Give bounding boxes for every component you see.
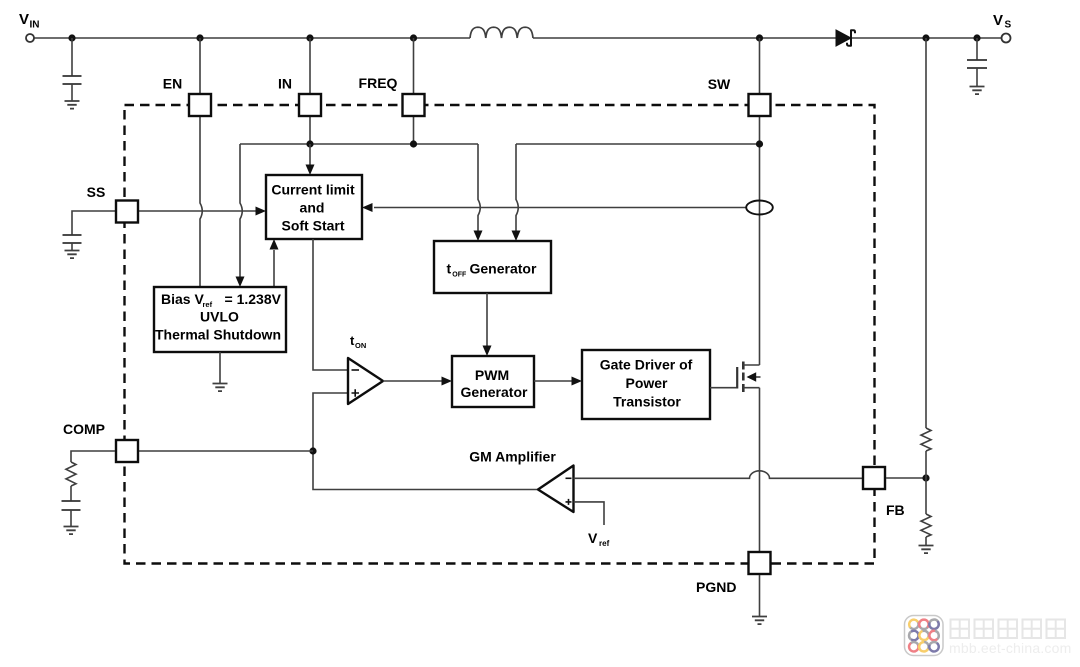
wire comparator plus to COMP node down to GM output [313,393,538,490]
arrow IN into current limit [309,144,311,167]
ground (output cap) [970,87,985,95]
wire GM minus input from FB (hop over source wire) [574,471,864,478]
wire GM plus input to Vref stub [574,502,605,525]
svg-text:PWM: PWM [475,367,509,383]
wire COMP pin left to RC [71,451,115,462]
wire SS to current limit (hops over EN and bias wires) [138,210,256,212]
wire SW net horizontal y144 [516,143,760,145]
svg-text:COMP: COMP [63,421,105,437]
wire bias drop from y144 [240,144,242,279]
wire R1 to node [925,451,927,478]
wire IN net drop to tOFF (with hop) [478,144,480,233]
svg-text:V: V [588,530,598,546]
node junction output cap [973,34,980,41]
wire SW net drop to tOFF (with hop) [516,144,518,233]
ground (FB divider) [919,546,934,554]
svg-text:IN: IN [278,76,292,92]
terminal VIN [26,34,34,42]
resistor R3 (COMP) [66,462,76,486]
svg-text:SS: SS [87,184,106,200]
capacitor C2 (output cap) [967,38,987,86]
svg-text:ON: ON [355,341,366,350]
svg-text:Transistor: Transistor [613,394,681,410]
svg-text:= 1.238V: = 1.238V [225,291,282,307]
svg-text:S: S [1005,20,1012,31]
inductor L1 [470,27,533,38]
block U7 gate driver [582,350,710,419]
svg-text:Generator: Generator [461,384,528,400]
pin square COMP [116,440,138,462]
wire MOSFET source down to PGND [759,388,761,552]
node junction EN [196,34,203,41]
node dot FREQ/y144 [410,140,417,147]
node junction IN [306,34,313,41]
ground (input cap) [65,101,80,109]
capacitor C1 (input cap) [63,38,82,101]
wire node to R2 [925,478,927,514]
svg-text:t: t [447,261,452,277]
svg-text:OFF: OFF [452,272,467,279]
svg-text:ref: ref [599,539,610,548]
block U3 tOFF generator [434,241,551,293]
wire SW pin drop down to MOSFET drain [759,38,761,365]
pin square IN [299,94,321,116]
current sense ellipse [746,201,773,215]
svg-text:Generator: Generator [470,261,537,277]
wire EN pin drop to Bias block [200,38,202,287]
svg-text:mbb.eet-china.com: mbb.eet-china.com [949,640,1071,656]
wire comparator out to PWM [383,380,444,382]
sense wire from ellipse to current limit (hops) [374,207,747,209]
ground (bias) [213,384,228,392]
watermark logo [905,616,944,656]
node junction SW rail [756,34,763,41]
svg-text:Power: Power [625,375,668,391]
svg-text:GM Amplifier: GM Amplifier [469,449,556,465]
wire top rail left (VIN to inductor) [34,37,470,39]
wire IN net horizontal y144 [240,143,478,145]
node dot COMP net [309,447,316,454]
wire bias to ground [219,352,221,383]
node dot FB divider [922,474,929,481]
wire FB pin to divider node [886,477,926,479]
block U1 current limit and soft start [266,175,362,239]
wire IN pin drop to node [309,38,311,144]
svg-text:FB: FB [886,502,905,518]
wire current limit bottom to comparator minus [313,239,348,370]
watermark text [949,620,1071,657]
wire R2 to ground [925,537,927,545]
wire PWM to gate driver [534,380,574,382]
wire R3 to C4 [70,486,72,501]
svg-text:Current limit: Current limit [271,182,355,198]
wire tOFF to PWM [486,293,488,348]
svg-text:Gate Driver of: Gate Driver of [600,357,693,373]
wire FREQ pin drop to node [413,38,415,144]
diode D1 schottky [836,30,855,47]
node dot IN/y144 [306,140,313,147]
pin square SS [116,201,138,223]
block U2 bias/UVLO [154,287,286,352]
svg-text:Bias V: Bias V [161,291,204,307]
pin square SW [749,94,771,116]
wire COMP pin to node [139,450,313,452]
pin square FB [863,467,885,489]
wire bias to current limit (up arrow) [273,250,275,287]
svg-text:FREQ: FREQ [359,75,398,91]
svg-text:Thermal Shutdown: Thermal Shutdown [155,327,281,343]
pin square FREQ [403,94,425,116]
pin square PGND [749,552,771,574]
capacitor C4 (COMP) [62,501,81,510]
dashed IC boundary box [125,105,875,564]
resistor R2 (lower FB) [921,514,931,537]
svg-text:IN: IN [30,20,40,31]
svg-text:SW: SW [708,76,731,92]
wire SS left to cap [72,211,116,235]
svg-text:EN: EN [163,76,182,92]
node junction FB divider top [922,34,929,41]
svg-text:PGND: PGND [696,579,736,595]
node junction FREQ [410,34,417,41]
node junction VIN cap [68,34,75,41]
GM amplifier U6 [538,466,574,513]
transistor Q1 power NMOS [710,362,761,393]
ground (COMP) [64,527,79,535]
block U4 PWM generator [452,356,534,407]
capacitor C3 (SS cap) [63,235,82,243]
ground (SS cap) [65,251,80,259]
svg-text:Soft Start: Soft Start [282,218,345,234]
svg-text:V: V [19,11,29,28]
wire VS rail down to R1 [925,38,927,428]
node dot SW/y144 [756,140,763,147]
terminal VS [1002,34,1011,43]
wire top rail right (diode to VS) [852,37,1002,39]
ground (PGND) [752,617,767,625]
wire top rail mid (inductor to diode) [533,37,836,39]
resistor R1 (upper FB) [921,428,931,451]
pin square EN [189,94,211,116]
wire PGND to ground [759,575,761,616]
comparator U5 tON [348,358,383,404]
svg-text:UVLO: UVLO [200,309,239,325]
svg-text:V: V [993,12,1003,29]
svg-text:and: and [300,200,325,216]
